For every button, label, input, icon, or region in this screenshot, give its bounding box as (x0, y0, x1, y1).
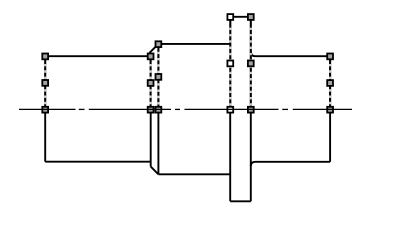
grip V3 bottom (156, 107, 162, 113)
selected line V2 (dashed) (150, 56, 152, 112)
centerline long dash 3 (185, 108, 279, 110)
centerline long dash 4 (293, 108, 352, 110)
grip V3 midpoint (156, 74, 162, 80)
grip V6 midpoint (327, 80, 333, 86)
wire lower flange left edge (229, 109, 231, 201)
selected line V6 (dashed) (329, 56, 331, 112)
wire lower section1 bottom edge (45, 161, 151, 163)
grip V1 bottom (42, 107, 48, 113)
wire lower fillet and section4 bottom edge (251, 162, 330, 166)
wire flange top edge (230, 16, 251, 18)
grip V4 bottom (hollow) (227, 107, 233, 113)
grip V1 midpoint (42, 80, 48, 86)
grip V5 top (248, 14, 254, 20)
selected line V3 (dashed) (157, 44, 159, 112)
wire lower step shoulder (150, 109, 152, 166)
wire upper section1 top edge (45, 55, 150, 57)
wire upper fillet and section4 top edge (251, 52, 330, 57)
grip V2 top (148, 54, 154, 60)
grip V6 bottom (327, 107, 333, 113)
wire lower flange right edge (250, 109, 252, 201)
centerline long dash 2 (89, 108, 171, 110)
grip V5 midpoint (248, 61, 254, 67)
selected line V5 (dashed) (250, 17, 252, 112)
wire lower right edge (329, 109, 331, 161)
grip V6 top (327, 54, 333, 60)
wire lower left edge (44, 109, 46, 161)
centerline dot 2 (175, 108, 180, 110)
wire upper chamfer (149, 44, 158, 53)
grip V3 top (156, 41, 162, 47)
selected line V1 (dashed) (44, 56, 46, 112)
wire upper section2 top edge (158, 43, 230, 45)
wire flange bottom edge (230, 200, 251, 202)
grip V2 bottom (148, 107, 154, 113)
grip V5 bottom (248, 107, 254, 113)
wire lower section2 bottom edge (158, 173, 230, 175)
centerline dot 1 (79, 108, 85, 110)
centerline dot 3 (282, 108, 288, 110)
selected line V4 (dashed) (229, 17, 231, 112)
grip V4 top (hollow) (227, 14, 233, 20)
grip V1 top (42, 54, 48, 60)
grip V2 midpoint (148, 80, 154, 86)
centerline long dash 1 (19, 108, 76, 110)
wire lower chamfer (151, 167, 159, 175)
wire lower step inner edge (157, 109, 159, 174)
grip V4 midpoint (hollow) (227, 61, 233, 67)
